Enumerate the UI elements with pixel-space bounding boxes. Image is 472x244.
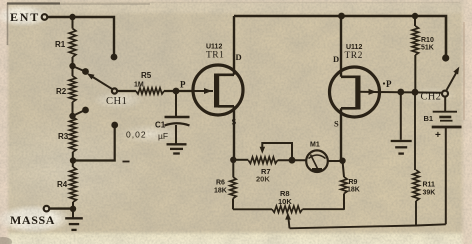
wire TR2 gate to CH2 [358, 89, 443, 95]
svg-text:U112: U112 [206, 44, 222, 51]
node tap 1 [69, 63, 75, 69]
transistor TR2 [330, 16, 380, 161]
svg-text:R10: R10 [421, 37, 434, 44]
ground G3 [391, 141, 412, 154]
meter M1 [306, 150, 328, 172]
wire tap stub 1 [73, 66, 85, 71]
wire R4 bottom [72, 202, 74, 218]
svg-text:P: P [386, 79, 392, 89]
node P1 [173, 88, 180, 95]
svg-text:R4: R4 [57, 180, 68, 189]
svg-text:CH2: CH2 [421, 92, 442, 103]
svg-text:39K: 39K [423, 190, 436, 197]
svg-text:D: D [333, 54, 339, 64]
svg-text:51K: 51K [421, 45, 434, 52]
svg-text:R1: R1 [55, 40, 66, 49]
contact dot D (CH1) [111, 122, 118, 129]
svg-text:10K: 10K [278, 197, 292, 206]
ground G1 [65, 218, 83, 230]
terminal MASSA [44, 206, 50, 212]
svg-text:M1: M1 [310, 142, 320, 149]
resistor R10 [412, 16, 418, 92]
svg-text:R3: R3 [58, 132, 69, 141]
wire P2 to ground [400, 92, 402, 140]
wire M1 to R9 node [328, 160, 343, 162]
resistor R3 [69, 117, 76, 152]
svg-text:D: D [236, 52, 242, 62]
svg-text:B1: B1 [424, 114, 434, 123]
svg-text:ENT: ENT [10, 10, 40, 24]
label R10 51K [421, 37, 434, 52]
svg-text:18K: 18K [214, 188, 227, 195]
svg-text:S: S [232, 117, 237, 127]
node P2 [397, 89, 404, 96]
contact dot A (CH1) [111, 54, 118, 61]
label P (TR2 gate) [383, 79, 392, 89]
wire R3-R4 [72, 152, 74, 167]
svg-text:18K: 18K [347, 187, 360, 194]
contact dot C (CH1) [82, 107, 89, 114]
node tap 3 [70, 157, 76, 163]
label 0,02 uF [126, 130, 168, 142]
contact dot CH2 [442, 54, 449, 61]
capacitor C1 [165, 117, 190, 144]
switch CH2 terminal [442, 91, 448, 97]
svg-text:S: S [334, 119, 339, 129]
contact dot B (CH1) [82, 68, 89, 75]
wire MASSA [50, 207, 74, 209]
node input junction [69, 14, 75, 20]
svg-text:R9: R9 [349, 179, 358, 186]
wire R2-R3 [72, 102, 74, 117]
svg-text:0,02: 0,02 [126, 130, 147, 140]
svg-text:U112: U112 [346, 44, 362, 51]
wire C1 top lead [175, 91, 177, 117]
resistor R9 [341, 161, 347, 210]
node tap 2 [69, 113, 75, 119]
wire bottom rail [290, 224, 446, 228]
node ground junction [70, 206, 76, 212]
wire lower row left [233, 208, 272, 210]
label R9 18K [347, 179, 360, 194]
wire R1 top lead [72, 17, 74, 29]
svg-text:MASSA: MASSA [10, 213, 55, 227]
wire tap 3 to contact D [73, 127, 115, 161]
svg-text:20K: 20K [256, 175, 270, 184]
minus mark [123, 161, 130, 163]
wire top rail [234, 16, 446, 55]
page edge line top-left [7, 2, 60, 4]
label R7 20K [256, 167, 271, 184]
resistor R4 [70, 167, 77, 202]
svg-text:µF: µF [158, 131, 168, 141]
label R6 18K [214, 180, 227, 195]
wire TR1 gate [176, 88, 213, 94]
svg-text:R2: R2 [56, 87, 67, 96]
svg-text:CH1: CH1 [106, 96, 127, 107]
wire R8 wiper [285, 213, 291, 229]
node rail R10 [412, 13, 418, 19]
wire source row left [233, 159, 248, 161]
wire tap stub 2 [73, 111, 85, 117]
node R7 wiper junction [289, 157, 296, 164]
svg-text:+: + [435, 130, 441, 141]
svg-text:R5: R5 [141, 71, 152, 80]
resistor R2 [69, 76, 76, 102]
resistor R11 [413, 92, 419, 225]
wire R1-R2 [72, 57, 74, 76]
node R10/R11 junction [412, 89, 419, 96]
wire ENT input [48, 17, 115, 55]
switch CH1 wiper arm [87, 73, 113, 89]
wire CH1 to R5 [117, 90, 136, 92]
terminal ENT [42, 14, 48, 20]
svg-text:C1: C1 [155, 121, 166, 130]
node rail TR2 drain [338, 13, 345, 20]
svg-text:TR2: TR2 [345, 51, 363, 61]
svg-text:R6: R6 [216, 180, 225, 187]
node TR2 source junction [339, 158, 345, 164]
resistor R6 [230, 160, 236, 210]
battery B1 [432, 97, 462, 225]
wire R7 to M1 [278, 159, 307, 161]
svg-text:TR1: TR1 [206, 51, 224, 61]
wire R5 to P [164, 90, 192, 92]
svg-text:P: P [180, 80, 186, 90]
node TR1 source junction [230, 157, 236, 163]
switch CH1 terminal [112, 88, 117, 93]
resistor R7 [248, 157, 277, 163]
resistor R1 [69, 29, 76, 58]
label R11 39K [423, 182, 436, 197]
resistor R5 [136, 88, 164, 94]
transistor TR1 [193, 16, 243, 160]
resistor R8 [272, 206, 303, 212]
wire lower row right [303, 208, 345, 210]
label R8 10K [278, 189, 292, 206]
svg-text:1M: 1M [134, 82, 144, 89]
svg-text:R11: R11 [423, 182, 436, 189]
switch CH2 arm [447, 67, 460, 90]
wire R7 wiper [260, 143, 292, 158]
ground G2 [167, 144, 187, 153]
